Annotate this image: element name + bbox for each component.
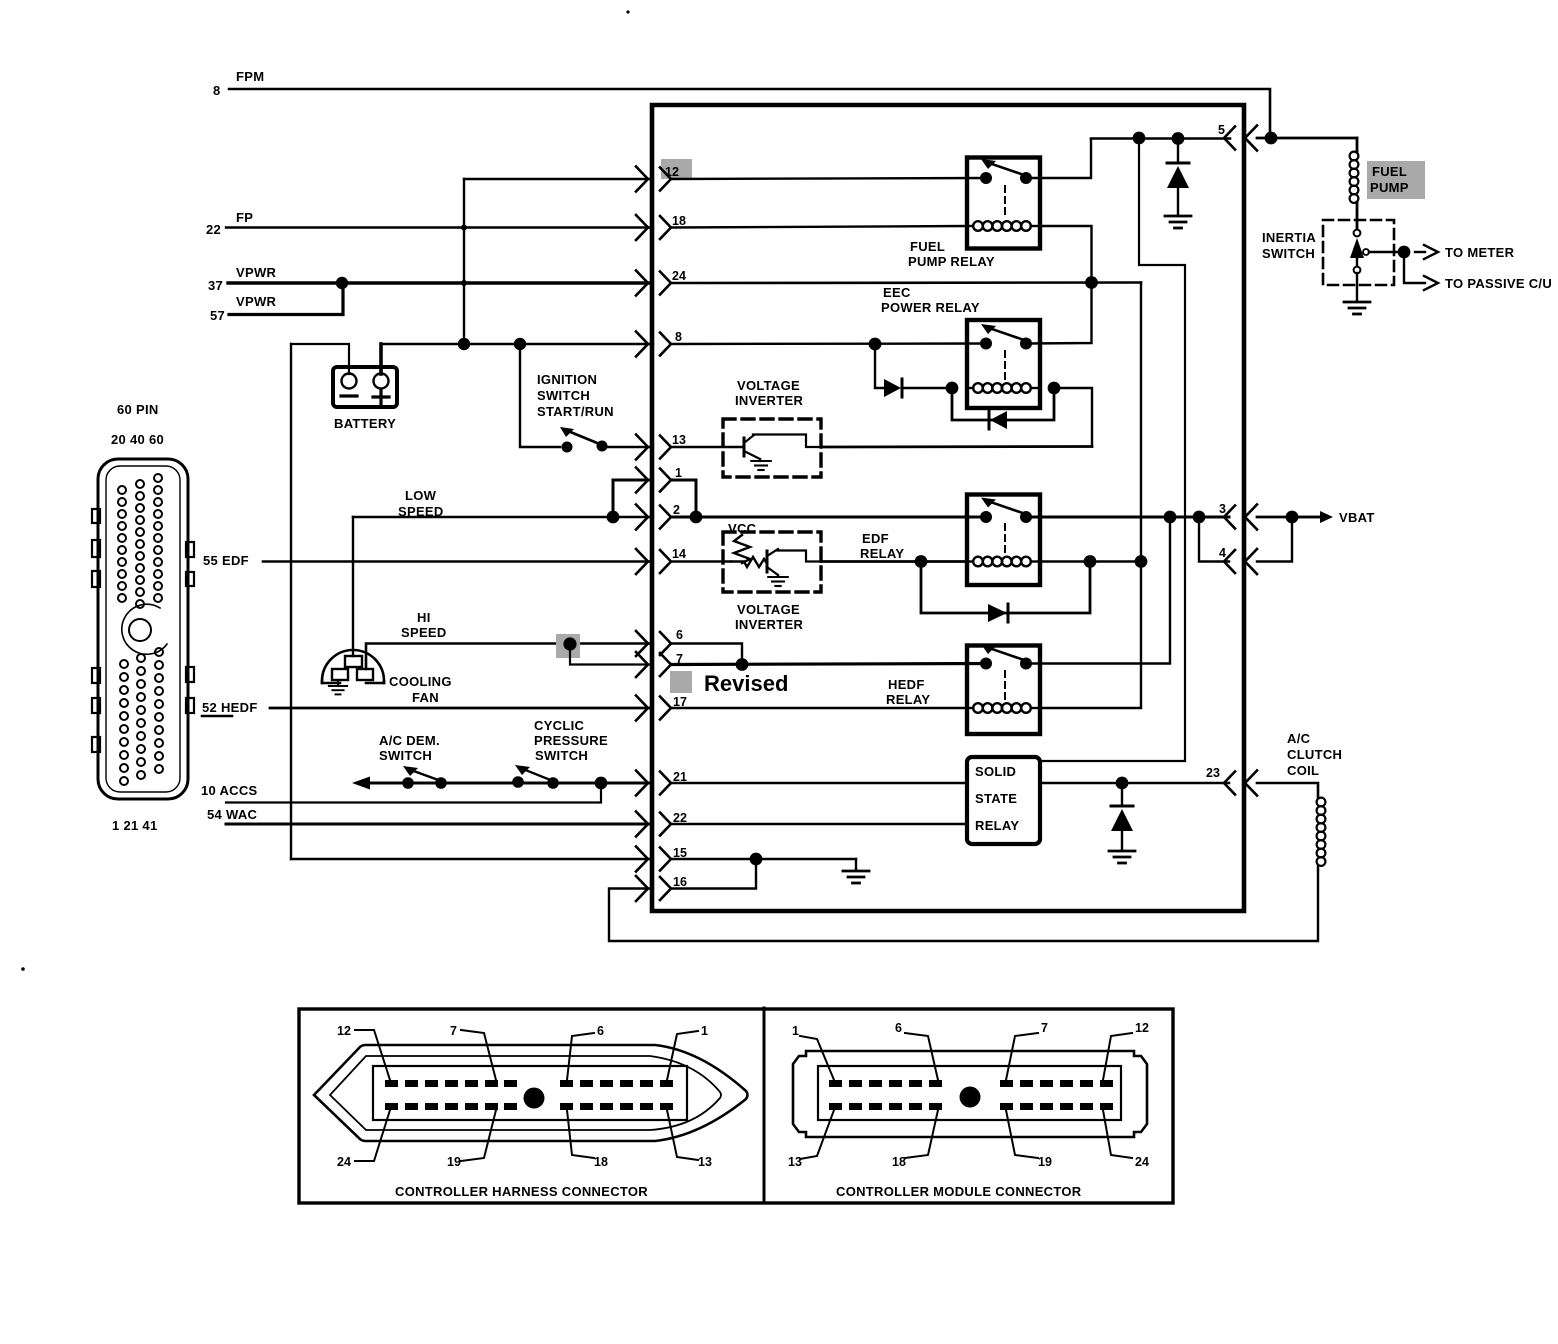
pin 21 [636, 771, 671, 796]
wire VBAT down to pin 4 [1257, 517, 1292, 562]
controller harness connector body [314, 1045, 748, 1141]
junction EDF coil rail [1135, 555, 1148, 568]
svg-text:13: 13 [698, 1155, 712, 1169]
svg-text:6: 6 [895, 1021, 902, 1035]
wire inverter U2 output to EDF coil [821, 560, 967, 563]
svg-text:RELAY: RELAY [975, 818, 1019, 833]
inertia switch S4 [1354, 230, 1361, 237]
wire low speed to pin 2 [353, 516, 650, 519]
svg-text:CONTROLLER MODULE CONNECTOR: CONTROLLER MODULE CONNECTOR [836, 1184, 1082, 1199]
ground below CR5 [1109, 851, 1135, 863]
wire fuel contact right up to pin5 line [1026, 139, 1091, 178]
wire EDF contact right to pins 3 4 [1026, 516, 1229, 519]
junction EDF coil right tap [1084, 555, 1097, 568]
svg-text:PUMP: PUMP [1370, 180, 1409, 195]
wire 52 HEDF to pin 17 [270, 707, 650, 710]
fuel relay label [908, 239, 995, 269]
harness connector title [395, 1184, 648, 1199]
svg-text:VPWR: VPWR [236, 294, 277, 309]
pin 4 [1224, 549, 1257, 574]
node A/C clutch coil label [1287, 731, 1342, 778]
node 10 ACCS label [201, 783, 258, 798]
wire pin 13 to inverter [671, 446, 742, 449]
fuel pump highlight [1367, 161, 1425, 199]
bottom panel divider [763, 1008, 766, 1203]
pin 7 [636, 652, 671, 677]
module connector key post [960, 1087, 981, 1108]
voltage inverter U1 label [735, 378, 803, 408]
cooling fan M1 [322, 650, 384, 683]
ground inside inverter U2 [768, 577, 788, 586]
wire SSR output to pin 23 [1040, 782, 1229, 785]
node FP pin 22 label [206, 210, 253, 237]
wire 10 ACCS up to switch wire [226, 783, 601, 803]
junction EEC coil left [946, 382, 959, 395]
wire pin 4 tie [1199, 517, 1229, 562]
arrow TO PASSIVE C/U [1424, 276, 1438, 290]
junction diode tap pin 5 [1172, 132, 1185, 145]
svg-text:57: 57 [210, 308, 225, 323]
ground below inertia switch [1344, 302, 1370, 314]
svg-text:12: 12 [337, 1024, 351, 1038]
diode CR5 clamp at pin 23 [1121, 783, 1123, 806]
wire pin 1 inside loop [671, 480, 696, 517]
svg-text:RELAY: RELAY [886, 692, 930, 707]
wire A/C switch chain to pin 21 [368, 782, 650, 785]
svg-text:4: 4 [1219, 546, 1226, 560]
wire pin 8 to EEC contact [671, 342, 986, 345]
fuel pump relay K1 box [967, 158, 1040, 249]
wire EEC coil suppression loop [952, 388, 1054, 420]
EDF relay K3 box [967, 495, 1040, 586]
ground inside inverter U1 [751, 461, 771, 470]
controller module connector body [793, 1051, 1147, 1137]
svg-text:INERTIA: INERTIA [1262, 230, 1316, 245]
wire pin 15 inside to ground [671, 858, 856, 860]
node HI SPEED label [401, 610, 447, 640]
transistor Q2 inside inverter U2 [766, 549, 821, 577]
solid state relay label [975, 764, 1019, 833]
svg-text:VPWR: VPWR [236, 265, 277, 280]
EDF relay contact left [980, 511, 992, 523]
svg-text:COIL: COIL [1287, 763, 1319, 778]
wire inertia switch to ground [1356, 273, 1358, 300]
wire battery negative down left side [290, 344, 292, 859]
harness connector pins bottom row [385, 1103, 673, 1110]
pin 5 [1224, 126, 1257, 151]
wire HEDF contact right up to pin3 wire [1026, 517, 1170, 664]
ignition switch S1 [560, 427, 650, 453]
resistor VCC vertical zigzag [734, 535, 750, 563]
ignition switch label [537, 372, 614, 419]
voltage inverter U2 label [735, 602, 803, 632]
fuel relay coil [967, 225, 973, 227]
svg-text:8: 8 [675, 330, 682, 344]
svg-text:18: 18 [672, 214, 686, 228]
svg-text:VBAT: VBAT [1339, 510, 1375, 525]
svg-text:12: 12 [1135, 1021, 1149, 1035]
pin 17 [636, 696, 671, 721]
svg-text:A/C: A/C [1287, 731, 1311, 746]
HEDF relay contact left [980, 658, 992, 670]
svg-text:STATE: STATE [975, 791, 1017, 806]
svg-text:SWITCH: SWITCH [379, 748, 432, 763]
junction EDF coil left tap [915, 555, 928, 568]
wire pin 16 outside loop to AC clutch return [609, 870, 1318, 941]
underline revision 52 [202, 715, 232, 718]
svg-text:HI: HI [417, 610, 431, 625]
svg-text:19: 19 [1038, 1155, 1052, 1169]
pin 12 highlight [661, 159, 692, 179]
wire pin 1 outside loop [613, 480, 650, 517]
svg-text:5: 5 [1218, 123, 1225, 137]
svg-text:CYCLIC: CYCLIC [534, 718, 584, 733]
highlight revision mark before Revised [670, 671, 692, 693]
node VPWR pin 57 label [210, 294, 277, 323]
wire pin 12 to fuel relay contact [671, 178, 986, 179]
svg-text:54 WAC: 54 WAC [207, 807, 258, 822]
wire pin 21 to solid state relay [671, 782, 967, 785]
svg-text:1: 1 [792, 1024, 799, 1038]
HEDF relay label [886, 677, 930, 707]
transistor Q1 inside inverter [744, 435, 821, 462]
EEC power relay K2 box [967, 320, 1040, 408]
wire hi speed from fan to pin 6 [366, 644, 650, 670]
wire VPWR 37 to pin 24 [228, 281, 650, 284]
EDF relay contact right [1020, 511, 1032, 523]
ground pins 15 16 [855, 859, 857, 869]
wire vertical x464 down to battery wire [463, 179, 465, 344]
svg-text:SWITCH: SWITCH [1262, 246, 1315, 261]
node A/C DEM switch label [379, 733, 440, 763]
pin 13 [636, 435, 671, 460]
pin 23 [1224, 771, 1257, 796]
wire diode feed from pin8 junction [875, 344, 884, 388]
EDF relay dashed link [1004, 524, 1006, 554]
svg-text:SWITCH: SWITCH [535, 748, 588, 763]
junction low speed pin1 [607, 511, 620, 524]
wire pin 16 inside jog up [671, 859, 756, 889]
diode CR2 across EEC coil [990, 411, 1007, 429]
svg-text:PUMP RELAY: PUMP RELAY [908, 254, 995, 269]
wire pin 23 outside to clutch coil [1257, 783, 1318, 798]
svg-text:FPM: FPM [236, 69, 264, 84]
arrow VBAT [1292, 516, 1322, 518]
diode CR1 to EEC coil [884, 379, 901, 397]
pin 18 [636, 215, 671, 240]
ground cooling fan [337, 680, 339, 686]
svg-text:7: 7 [450, 1024, 457, 1038]
node 54 WAC label [207, 807, 258, 822]
arrow left end of A/C wire [352, 777, 370, 790]
60 pin key hole [122, 604, 167, 654]
svg-text:19: 19 [447, 1155, 461, 1169]
junction VPWR rail [1085, 276, 1098, 289]
wire pin 17 to HEDF coil [671, 707, 967, 710]
svg-text:13: 13 [788, 1155, 802, 1169]
svg-text:6: 6 [676, 628, 683, 642]
junction battery line x520 [514, 338, 526, 350]
svg-text:24: 24 [672, 269, 686, 283]
junction crossing blob VPWR [461, 280, 467, 286]
junction VBAT tap [1286, 511, 1299, 524]
wire pin 2 to EDF contact [671, 516, 986, 519]
diode CR4 clamp at pin 5 [1177, 139, 1179, 164]
harness connector key post [524, 1088, 545, 1109]
svg-text:SOLID: SOLID [975, 764, 1016, 779]
svg-text:TO METER: TO METER [1445, 245, 1515, 260]
pin 12 [636, 167, 671, 192]
junction crossing blob FP [461, 225, 467, 231]
wire pin 14 into inverter U2 [671, 560, 731, 563]
EEC relay contact left [980, 338, 992, 350]
inertia switch dashed box [1323, 220, 1394, 285]
pin 2 [636, 505, 671, 530]
junction pin5 rail left [1133, 132, 1146, 145]
svg-text:POWER RELAY: POWER RELAY [881, 300, 980, 315]
wire pin12 feed from battery line [464, 178, 650, 180]
node VCC label [728, 521, 757, 536]
svg-text:RELAY: RELAY [860, 546, 904, 561]
module connector pins top row [829, 1080, 1113, 1087]
wire pin 18 to fuel coil [671, 226, 967, 228]
wire pin 24 VPWR rail [671, 281, 1141, 284]
EEC relay dashed link [1004, 351, 1006, 381]
svg-text:COOLING: COOLING [389, 674, 452, 689]
resistor base zigzag [731, 557, 766, 567]
ground below CR4 [1165, 216, 1191, 228]
EEC power relay label [881, 285, 980, 315]
wire VPWR 57 up to junction [229, 283, 343, 315]
speck artifacts [626, 10, 629, 13]
svg-text:7: 7 [1041, 1021, 1048, 1035]
junction pin 6 to 7 [736, 658, 749, 671]
wire 54 WAC to pin 22 [226, 823, 650, 826]
svg-text:INVERTER: INVERTER [735, 617, 803, 632]
svg-text:START/RUN: START/RUN [537, 404, 614, 419]
wire EDF suppression loop [921, 562, 1090, 614]
svg-text:13: 13 [672, 433, 686, 447]
pin 16 [636, 876, 671, 901]
pin 15 [636, 847, 671, 872]
ignition switch feed wire [520, 344, 560, 447]
svg-text:BATTERY: BATTERY [334, 416, 396, 431]
pin 24 [636, 271, 671, 296]
A/C DEM switch S2 [402, 777, 414, 789]
svg-text:CONTROLLER HARNESS CONNECTOR: CONTROLLER HARNESS CONNECTOR [395, 1184, 648, 1199]
harness connector pins top row [385, 1080, 673, 1087]
diode CR3 across EDF coil [988, 604, 1007, 622]
fuel pump coil [1356, 138, 1359, 152]
wire pin 5 rail inside [1091, 137, 1230, 140]
svg-text:20 40 60: 20 40 60 [111, 432, 164, 447]
fuel relay dashed link [1004, 186, 1006, 218]
HEDF relay coil [967, 707, 973, 709]
svg-text:SWITCH: SWITCH [537, 388, 590, 403]
cooling fan label [389, 674, 452, 705]
wire SSR top to pin5 rail jog [1040, 138, 1185, 761]
EEC relay coil [967, 387, 973, 389]
voltage inverter U1 dashed box [723, 419, 821, 477]
wire battery plus to pin 8 [381, 343, 650, 345]
svg-text:A/C DEM.: A/C DEM. [379, 733, 440, 748]
svg-text:8: 8 [213, 83, 221, 98]
pin 6 [636, 631, 671, 656]
wire low speed down to fan [352, 517, 354, 656]
junction diode tap pin 23 [1116, 777, 1129, 790]
node cyclic pressure switch label [534, 718, 608, 763]
EDF relay coil [967, 560, 973, 562]
svg-text:EDF: EDF [862, 531, 889, 546]
highlight revision mark on hi speed junction [556, 634, 580, 658]
svg-text:1 21 41: 1 21 41 [112, 818, 157, 833]
wire VPWR junction down to EEC contact [1027, 283, 1092, 344]
svg-text:VOLTAGE: VOLTAGE [737, 378, 800, 393]
pin 8 [636, 332, 671, 357]
pin 3 [1224, 505, 1257, 530]
wire pin 22 to solid state relay [671, 823, 967, 825]
wire inertia switch to meter [1369, 251, 1404, 254]
cyclic pressure switch S3 [512, 776, 524, 788]
svg-text:12: 12 [665, 165, 679, 179]
svg-text:23: 23 [1206, 766, 1220, 780]
svg-text:FUEL: FUEL [910, 239, 945, 254]
svg-text:3: 3 [1219, 502, 1226, 516]
svg-text:6: 6 [597, 1024, 604, 1038]
wire pin 5 outside to fuel pump [1257, 137, 1357, 140]
wire pin 7 to HEDF contact [671, 664, 986, 665]
EDF relay label [860, 531, 904, 561]
wire 55 EDF to pin 14 [263, 560, 650, 563]
svg-text:HEDF: HEDF [888, 677, 925, 692]
junction HEDF feedback on pin3 wire [1164, 511, 1177, 524]
svg-text:INVERTER: INVERTER [735, 393, 803, 408]
solid state relay K5 box [967, 757, 1040, 844]
svg-text:18: 18 [594, 1155, 608, 1169]
junction VPWR [336, 277, 348, 289]
junction pin 15 16 tie [750, 853, 763, 866]
battery B1 [333, 367, 397, 407]
svg-text:10 ACCS: 10 ACCS [201, 783, 258, 798]
svg-text:60 PIN: 60 PIN [117, 402, 159, 417]
wire EDF coil right [1040, 560, 1141, 562]
pin 1 [636, 468, 671, 493]
svg-text:2: 2 [673, 503, 680, 517]
bottom panel frame [299, 1009, 1173, 1203]
HEDF relay arm [989, 648, 1027, 661]
wire pin 15 outside from battery negative [291, 858, 650, 860]
svg-text:FUEL: FUEL [1372, 164, 1407, 179]
junction ACCS tap [595, 777, 608, 790]
svg-text:FAN: FAN [412, 690, 439, 705]
node 52 HEDF label [202, 700, 258, 715]
node LOW SPEED label [398, 488, 444, 519]
wire to passive [1404, 252, 1425, 283]
fuel relay contact left [980, 172, 992, 184]
svg-text:EEC: EEC [883, 285, 911, 300]
svg-text:55 EDF: 55 EDF [203, 553, 249, 568]
EDF relay arm [989, 502, 1027, 515]
svg-text:PRESSURE: PRESSURE [534, 733, 608, 748]
junction EEC coil right [1048, 382, 1061, 395]
wire VPWR rail down to EDF coil rail [1040, 283, 1141, 709]
svg-text:24: 24 [1135, 1155, 1149, 1169]
voltage inverter U2 dashed box [723, 532, 821, 592]
HEDF relay dashed link [1004, 671, 1006, 700]
svg-text:FP: FP [236, 210, 253, 225]
svg-text:VOLTAGE: VOLTAGE [737, 602, 800, 617]
svg-text:18: 18 [892, 1155, 906, 1169]
harness pin labels and leaders [337, 1024, 712, 1169]
node VPWR pin 37 label [208, 265, 277, 293]
wire FPM from pin 8 to fuel pump line [229, 89, 1270, 137]
wire pin 6 inside jog [671, 644, 742, 665]
svg-text:CLUTCH: CLUTCH [1287, 747, 1342, 762]
wire 55 EDF label [203, 553, 249, 568]
fuel relay arm [989, 163, 1027, 176]
inertia switch label [1262, 230, 1316, 261]
wire fuel coil right down to VPWR junction [1040, 226, 1092, 282]
svg-text:IGNITION: IGNITION [537, 372, 597, 387]
HEDF relay contact right [1020, 658, 1032, 670]
wire EEC coil right to pin13 line [1054, 388, 1092, 447]
svg-text:SPEED: SPEED [401, 625, 447, 640]
HEDF relay K4 box [967, 646, 1040, 735]
junction battery line x464 [458, 338, 470, 350]
battery label [334, 416, 396, 431]
svg-text:37: 37 [208, 278, 223, 293]
wire hi speed jog to pin 7 [570, 644, 650, 665]
EEC relay contact right [1020, 338, 1032, 350]
svg-text:24: 24 [337, 1155, 351, 1169]
junction pin8 diode tap [869, 338, 882, 351]
svg-text:1: 1 [675, 466, 682, 480]
A/C clutch coil L1 [1317, 798, 1326, 866]
wire FP to pin 18 [226, 226, 650, 228]
node Revised stamp [704, 671, 788, 696]
module connector title [836, 1184, 1082, 1199]
svg-text:14: 14 [672, 547, 686, 561]
svg-text:LOW: LOW [405, 488, 437, 503]
60 pin connector J1 [111, 402, 164, 447]
junction pin1 pin2 inside [690, 511, 703, 524]
svg-text:Revised: Revised [704, 671, 788, 696]
controller box outline [652, 105, 1244, 911]
svg-text:22: 22 [206, 222, 221, 237]
pin 14 [636, 549, 671, 574]
fuel relay contact right [1020, 172, 1032, 184]
svg-text:52 HEDF: 52 HEDF [202, 700, 258, 715]
junction FPM tap [1265, 132, 1278, 145]
module connector pins bottom row [829, 1103, 1113, 1110]
junction pin4 tie on pin3 wire [1193, 511, 1206, 524]
arrow TO METER [1415, 251, 1425, 253]
node FPM pin 8 label [213, 69, 264, 98]
wire inverter U1 output to EEC coil [821, 445, 1092, 448]
svg-text:TO PASSIVE C/U: TO PASSIVE C/U [1445, 276, 1552, 291]
module pin labels and leaders [788, 1021, 1149, 1169]
fuel pump label [1370, 164, 1409, 195]
wire pin 3 outside VBAT [1257, 516, 1320, 519]
svg-text:1: 1 [701, 1024, 708, 1038]
EEC relay arm [989, 328, 1027, 341]
pin 22 [636, 812, 671, 837]
junction hi speed [563, 637, 576, 650]
junction meter tap [1398, 246, 1411, 259]
svg-text:16: 16 [673, 875, 687, 889]
